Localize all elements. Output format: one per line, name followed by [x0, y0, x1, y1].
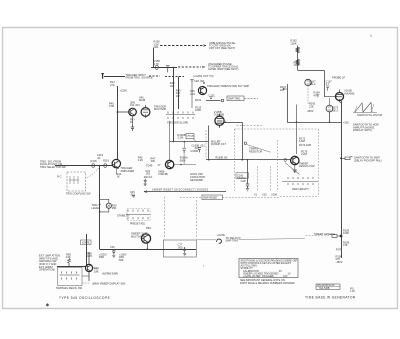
svg-text:.005: .005: [178, 245, 184, 249]
wire unloaded pulse: [151, 67, 177, 69]
switch box wafer SWP/MAG: [58, 268, 83, 286]
svg-text:SWP/MAG REGIS. SW: SWP/MAG REGIS. SW: [56, 287, 83, 290]
svg-text:TD45: TD45: [146, 163, 153, 167]
junction x247 rail: [247, 159, 249, 161]
SECTION F: top-right output cathode follower: [280, 39, 355, 113]
ground symbol C160: [246, 189, 249, 191]
ground v152: [293, 170, 297, 173]
wire vert x86: [86, 234, 88, 267]
corner registration mark: [370, 34, 372, 37]
svg-text:FIRST PAGE & READING NUMBERS D: FIRST PAGE & READING NUMBERS DIAGRAM: [240, 282, 295, 285]
junction x184 y141: [184, 141, 186, 143]
wire vert x99: [99, 166, 101, 249]
wire dashed tap2 left: [305, 235, 329, 237]
contact circle timing: [244, 142, 246, 144]
svg-text:TRIGGER (TIME/CM SW) DLY SWP: TRIGGER (TIME/CM SW) DLY SWP: [207, 84, 250, 88]
dashed box top y129: [235, 128, 319, 130]
svg-text:SWP TRIG: SWP TRIG: [228, 98, 240, 101]
svg-text:TRIG SELECTOR SW: TRIG SELECTOR SW: [40, 165, 66, 169]
svg-text:151-103: 151-103: [130, 103, 140, 107]
svg-text:47K: 47K: [343, 243, 348, 247]
wire vert x247 timing cap: [247, 160, 249, 184]
svg-text:R160E 1M: R160E 1M: [216, 156, 228, 159]
svg-text:47K: 47K: [314, 93, 319, 97]
dashed box right x318: [318, 129, 320, 197]
svg-text:DISPLAY SW’S): DISPLAY SW’S): [353, 128, 372, 132]
SECTION C2: tunnel diode / comparator cluster: [117, 155, 169, 179]
svg-text:X10: X10: [195, 147, 200, 150]
arrow unblanking: [203, 45, 206, 47]
resistor R158 body: [155, 65, 159, 69]
SECTION H: sweep gate bottom center: [131, 226, 241, 249]
wire dashed y197 right: [223, 196, 281, 198]
tube V131 pickoff diode: [198, 86, 206, 94]
svg-text:C160B: C160B: [190, 150, 198, 153]
svg-text:PRESET ADJ: PRESET ADJ: [130, 223, 146, 226]
svg-text:+GATE: +GATE: [217, 233, 226, 237]
resistor R151 bumps on rail: [284, 158, 287, 161]
dashed vert x257: [257, 166, 259, 192]
transistor Q115: [112, 159, 120, 167]
svg-text:27K: 27K: [110, 83, 115, 87]
curve from line to box: [86, 168, 99, 178]
small box uncal neon: [186, 134, 194, 139]
terminal arrow ext: [283, 88, 287, 90]
svg-text:10K: 10K: [66, 255, 71, 259]
resistor R115 body: [92, 164, 95, 168]
wire unblanking dashed: [160, 45, 206, 47]
wire pot loop bottom: [100, 208, 109, 212]
svg-text:R83: R83: [146, 226, 151, 230]
svg-text:R44 1K: R44 1K: [144, 175, 153, 179]
SECTION E2: right wafer near rail: [278, 105, 319, 192]
dashed vert x277: [277, 140, 279, 191]
wire tube cathode to x341: [340, 102, 342, 104]
svg-text:SWP LENGTH: SWP LENGTH: [292, 188, 309, 191]
svg-text:SWP RESET: SWP RESET: [203, 197, 218, 200]
svg-text:-150V: -150V: [307, 109, 314, 113]
wire horiz y70: [298, 70, 325, 72]
tube V161B: [336, 93, 344, 101]
SECTION D: center phantastron / sweep gating: [178, 84, 278, 196]
svg-text:2.2K: 2.2K: [138, 158, 144, 162]
svg-text:56K: 56K: [119, 258, 124, 262]
wire vert x287: [287, 84, 289, 123]
label box sweep trigger: [227, 96, 244, 101]
wire TD45 right: [174, 164, 196, 166]
resistor R164 body: [317, 95, 320, 98]
wire curve from box: [193, 139, 196, 142]
svg-text:25K: 25K: [112, 206, 117, 210]
capacitor C26: [112, 249, 115, 257]
wire vert x192: [191, 83, 193, 108]
svg-text:220K: 220K: [291, 41, 297, 45]
boxed label x10: [236, 173, 249, 178]
svg-text:100K: 100K: [195, 108, 201, 112]
wire dashes to right: [245, 97, 259, 99]
wire vert x178: [178, 77, 180, 110]
junction x242 rail: [241, 159, 243, 161]
svg-text:+225V: +225V: [120, 88, 128, 92]
svg-text:TEK 545B: TEK 545B: [319, 288, 330, 290]
svg-text:(MAIN SWEEP DISPLAY SW): (MAIN SWEEP DISPLAY SW): [92, 283, 126, 286]
capacitor C24 body: [144, 179, 147, 185]
switch wafer SW152: [288, 177, 313, 179]
junction y164: [180, 164, 182, 166]
transistor Q70 sweep gate: [141, 234, 150, 243]
wire Q95 out right: [93, 267, 98, 269]
title block box: [316, 284, 340, 289]
dashed vert x309: [307, 86, 309, 104]
box label +GATE on x86: [81, 240, 92, 245]
wire dashed y283: [82, 282, 90, 284]
switch wiper diagonal right: [285, 163, 299, 175]
svg-text:-150V: -150V: [336, 260, 343, 264]
wire vert x184 to cap: [183, 142, 185, 148]
wire dashed y125.5: [237, 125, 263, 127]
svg-text:S/N 20,000 & UP: S/N 20,000 & UP: [317, 285, 335, 287]
svg-text:SAWTOOTH 10V/CM: SAWTOOTH 10V/CM: [357, 113, 382, 117]
wafer rail inside box: [60, 274, 80, 276]
arrow unloaded pulse: [202, 66, 205, 68]
SECTION B: trigger multivibrator: [109, 79, 205, 124]
svg-text:100K: 100K: [343, 231, 349, 235]
dashed box trigger coupling: [67, 172, 86, 191]
svg-text:MULTIVIB.: MULTIVIB.: [154, 107, 167, 111]
tube V45: [141, 108, 150, 117]
svg-text:5.6M: 5.6M: [299, 139, 305, 143]
tube V152 disconnect diode: [291, 156, 299, 164]
svg-text:1K: 1K: [117, 175, 120, 179]
svg-text:1W: 1W: [176, 94, 180, 98]
wire rail y159.8: [206, 159, 291, 161]
svg-text:.001: .001: [190, 92, 196, 96]
svg-text:R·C: R·C: [57, 176, 62, 179]
wire dashed y197 left: [180, 196, 202, 198]
svg-text:10K: 10K: [170, 84, 175, 88]
wire v152 down: [294, 165, 296, 170]
junction x99: [99, 165, 101, 167]
svg-text:X1: X1: [254, 192, 258, 196]
SECTION I: bottom-left external sweep: [39, 251, 127, 275]
svg-text:R116: R116: [103, 158, 110, 162]
switch contact circle: [221, 99, 224, 102]
svg-text:RUNUP CKT: RUNUP CKT: [211, 142, 226, 146]
svg-text:6DJ8: 6DJ8: [139, 98, 146, 102]
diode TD45 body: [165, 160, 173, 168]
connector +GATE curl: [217, 239, 222, 243]
switch wafer SW45 contacts: [166, 112, 195, 120]
wire vert x242: [242, 123, 244, 160]
switch wafer SW30 stability: [126, 209, 151, 221]
svg-text:OPERATION): OPERATION): [39, 268, 55, 272]
resistor R162 body: [296, 47, 300, 53]
resistor R95 body: [68, 259, 71, 264]
svg-text:STABILITY: STABILITY: [117, 213, 130, 217]
svg-text:FIG.: FIG.: [350, 288, 355, 290]
svg-text:PROBE LP: PROBE LP: [332, 75, 345, 79]
wire Q115 emitter stub: [115, 168, 117, 174]
capacitor C167 body: [326, 86, 329, 91]
svg-text:RESISTOR: RESISTOR: [249, 149, 262, 153]
svg-text:ALTER./SWP (SEE TEXT): ALTER./SWP (SEE TEXT): [208, 67, 239, 71]
junction x117 y112: [117, 111, 119, 113]
svg-text:(DELAY PICKOFF PNL): (DELAY PICKOFF PNL): [354, 158, 382, 162]
junction node x176: [173, 67, 175, 69]
wafer contacts inside box row2: [62, 278, 77, 280]
svg-text:CRT CKT (SEE TEXT): CRT CKT (SEE TEXT): [209, 46, 235, 50]
lamp B173: [326, 105, 333, 112]
svg-text:C48 .001: C48 .001: [194, 79, 205, 83]
svg-text:560K: 560K: [180, 158, 186, 162]
lamp B167: [305, 79, 311, 85]
wire x324 to tube grid: [324, 96, 336, 98]
svg-text:TRIG COUPLING SW: TRIG COUPLING SW: [66, 192, 91, 195]
junction pot bottom: [99, 211, 101, 213]
SECTION C: left input amplifier row: [40, 153, 134, 173]
ground C77: [183, 254, 186, 256]
wafer contacts inside box row1: [62, 272, 77, 274]
svg-text:(½6AN8): (½6AN8): [344, 91, 355, 95]
capacitor C158: [166, 65, 169, 72]
svg-text:TYPE 545 OSCILLOSCOPE: TYPE 545 OSCILLOSCOPE: [59, 296, 111, 300]
svg-text:18K: 18K: [94, 269, 99, 273]
capacitor C160A: [182, 148, 186, 153]
svg-text:2.2M: 2.2M: [301, 152, 307, 156]
capacitor C131 body: [210, 97, 213, 99]
wire gate out dashed: [165, 76, 184, 78]
svg-text:(+GATE OUT TO): (+GATE OUT TO): [193, 74, 214, 78]
title block divider: [316, 286, 340, 288]
capacitor C160B: [198, 148, 202, 153]
resistor R120 inside: [70, 176, 78, 184]
svg-text:✱: ✱: [46, 302, 50, 307]
wire gate lead left: [197, 239, 217, 241]
wire long y239.5: [239, 239, 306, 240]
svg-text:TRIGGER SLOPE: TRIGGER SLOPE: [167, 121, 188, 125]
junction tap1: [340, 157, 342, 159]
dashed vert x234: [234, 129, 236, 191]
junction x209 rail: [208, 159, 210, 161]
svg-text:UNCAL: UNCAL: [187, 134, 195, 137]
wire q70 emitter down: [147, 243, 149, 249]
wire vert x296: [296, 105, 298, 155]
transistor Q45: [129, 108, 137, 116]
wire vert x177: [173, 68, 175, 142]
dashed vert x206: [205, 130, 207, 159]
svg-text:C26: C26: [110, 246, 115, 249]
wire horiz y141.6: [170, 141, 209, 143]
wire C160A down: [183, 153, 185, 164]
dashed box bottom right: [280, 196, 319, 198]
svg-text:R115: R115: [91, 159, 98, 163]
svg-text:SWEEP LENGTH: SWEEP LENGTH: [314, 232, 335, 236]
wire horiz y266: [57, 266, 87, 268]
wire TD45 up: [169, 121, 171, 160]
svg-text:POT: POT: [336, 247, 342, 251]
wire vert x209: [208, 126, 210, 160]
wire R150 drop: [153, 48, 155, 68]
wire R95 down: [68, 263, 70, 266]
dashed box edge x164: [163, 197, 165, 240]
svg-text:2.2M: 2.2M: [178, 136, 184, 140]
tube V135 phantastron: [215, 116, 224, 125]
capacitor C160: [246, 184, 250, 188]
svg-text:R131: R131: [195, 98, 202, 102]
svg-text:TIME BASE W GENERATOR: TIME BASE W GENERATOR: [305, 295, 356, 299]
wire unloaded pulse dashed: [178, 66, 201, 68]
svg-text:.01: .01: [97, 156, 101, 160]
svg-text:(½6DJ8): (½6DJ8): [158, 172, 168, 176]
box holdoff sub: [163, 240, 196, 257]
svg-text:CAP: CAP: [241, 179, 247, 183]
capacitor C47: [131, 125, 134, 132]
svg-text:X100: X100: [271, 192, 278, 196]
svg-text:R98: R98: [99, 255, 104, 259]
svg-text:1-28: 1-28: [350, 291, 355, 293]
capacitor C48: [190, 79, 193, 82]
svg-text:AMPLIFIER: AMPLIFIER: [121, 169, 135, 173]
resistor R163 body: [296, 59, 300, 64]
wire pot loop top: [100, 199, 109, 203]
wire y100: [206, 100, 221, 102]
svg-text:22K: 22K: [309, 104, 314, 108]
svg-text:+GATE (ALTER. TRIGGER) . . . .: +GATE (ALTER. TRIGGER) . . . . . . 10V: [243, 275, 288, 278]
wire vert x329 upper: [329, 98, 331, 105]
wire horiz y122: [288, 122, 342, 124]
resistor R116 body: [104, 164, 107, 168]
dashed box edge x196: [195, 200, 197, 239]
switch wiper diagonal: [247, 145, 271, 153]
wire trigger input cont: [149, 75, 160, 77]
svg-text:R174 10M: R174 10M: [299, 143, 311, 147]
wire vert x329: [329, 112, 331, 122]
junction x329 y122: [329, 121, 331, 123]
svg-text:FROM TRIG. SOURCE: FROM TRIG. SOURCE: [126, 76, 153, 80]
wire vert x341 main output: [341, 101, 343, 258]
svg-text:1K: 1K: [130, 120, 133, 124]
junction q70: [147, 248, 149, 250]
potentiometer R30 trig level: [99, 199, 112, 212]
wire horiz y249: [100, 249, 197, 251]
wire v135 plate: [224, 122, 242, 124]
svg-text:SWEEP RESET (DISCONNECT) DIODE: SWEEP RESET (DISCONNECT) DIODES: [152, 189, 208, 192]
wire Q95 down: [88, 272, 90, 281]
wire vert x324: [324, 71, 326, 97]
waveform sketch sawtooth: [353, 103, 377, 113]
wire trigger input: [104, 76, 125, 78]
svg-text:4.7: 4.7: [326, 82, 330, 86]
wire vert x89 into Q95: [88, 252, 90, 265]
notes box frame: [239, 259, 298, 278]
SECTION A: top-left unblanking / trigger input: [110, 40, 239, 93]
svg-text:3.9K: 3.9K: [109, 104, 115, 108]
junction tap2: [340, 235, 343, 238]
svg-text:X10: X10: [262, 192, 267, 196]
svg-text:+225: +225: [343, 121, 349, 124]
svg-text:LENGTH SW: LENGTH SW: [299, 164, 315, 168]
dashed vert x270: [270, 166, 272, 192]
label box sweep reset: [202, 195, 223, 200]
wire Q45 base: [132, 116, 134, 125]
svg-text:NETWORK: NETWORK: [190, 178, 204, 182]
wire vert x297: [297, 46, 299, 71]
junction pot top: [99, 204, 101, 206]
transistor Q95: [85, 264, 92, 271]
connector plug tap1: [341, 157, 353, 160]
capacitor C77 body: [183, 247, 186, 253]
pot R30 body: [106, 203, 111, 208]
svg-text:+GATE: +GATE: [82, 242, 90, 245]
wire box to Q95: [82, 275, 89, 277]
wire sweep reset arrowed: [144, 191, 226, 193]
wire input line y165: [55, 165, 112, 167]
junction x296 y122: [296, 121, 298, 123]
svg-text:(NORM SWP): (NORM SWP): [102, 271, 118, 275]
terminal post trigger input: [101, 74, 103, 79]
svg-text:330: 330: [151, 159, 156, 163]
wire vert x117 upper: [117, 86, 119, 160]
svg-text:.001: .001: [154, 45, 160, 49]
svg-text:SWP TRIG: SWP TRIG: [226, 238, 239, 242]
svg-text:LEVEL: LEVEL: [92, 206, 101, 210]
junction x176 y141: [173, 141, 175, 143]
connector plug tap2: [330, 235, 342, 238]
svg-text:4.7K: 4.7K: [87, 254, 93, 258]
